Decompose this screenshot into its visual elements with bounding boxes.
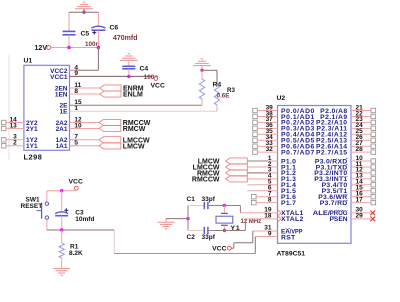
svg-text:1E: 1E (60, 109, 69, 116)
tag ENRM (100, 85, 144, 93)
U2 pin 8 (P1.7) (252, 196, 297, 207)
svg-text:VCC1: VCC1 (50, 74, 68, 81)
U2 pin 15 (P3.5) (322, 185, 376, 196)
node crystal bottom (223, 229, 226, 232)
U1 pin 2 (1Y1) (1, 140, 38, 151)
power flag (inverted ground) above C5/C6 (75, 2, 93, 9)
U2 pin 14 (P3.4) (322, 179, 376, 190)
svg-text:2Y1: 2Y1 (26, 126, 38, 133)
U2 pin 6 (P1.5) (247, 185, 296, 196)
svg-text:ALE/: ALE/ (313, 210, 330, 217)
svg-text:U1: U1 (24, 58, 33, 65)
faint left page edge (8, 55, 10, 160)
U2 pin 19 (XTAL1) (240, 207, 303, 218)
svg-text:VCC: VCC (69, 178, 83, 185)
U2 pin 1 (P1.0) (247, 155, 296, 166)
node xtal ground rail (186, 217, 189, 220)
U2 pin 29 (PSEN) (330, 213, 372, 224)
U1 pin 14 (2Y2) (1, 116, 38, 127)
resistor R1 (59, 230, 83, 268)
wire 1EN to tag (70, 93, 101, 95)
U1 pin 4 (VCC2) (50, 64, 78, 75)
tag LMCW (198, 158, 248, 166)
U1 pin 5 (1A1) (56, 140, 79, 151)
U1 pin 9 (VCC1) (50, 70, 78, 81)
clock chevron XTAL2 (278, 216, 281, 222)
svg-text:C6: C6 (110, 25, 119, 32)
U2 pin 4 (P1.3) (247, 173, 296, 184)
svg-text:32: 32 (266, 146, 274, 153)
svg-text:13: 13 (10, 122, 18, 129)
U2 pin 21 (P2.0/A8) (320, 104, 375, 115)
svg-text:P1.7: P1.7 (281, 200, 296, 207)
crystal Y1 (216, 206, 240, 233)
node: junction at top rail (82, 11, 85, 14)
terminal 12V (35, 45, 51, 52)
svg-text:LMCW: LMCW (123, 143, 145, 150)
U2 pin 30 (ALE/PROG) (313, 207, 371, 218)
capacitor C3 (55, 208, 94, 223)
U2 pin 9 (RST) (255, 230, 296, 241)
U2 pin 12 (P3.2) (314, 167, 375, 178)
no-connect X on pin 30 (370, 211, 375, 216)
wire C4 lower lead (128, 69, 130, 77)
wire reset to RST pin (114, 230, 255, 254)
svg-text:1A1: 1A1 (56, 143, 68, 150)
tag LMCW (99, 143, 145, 151)
power flag above R4 (193, 59, 211, 66)
label 0.6E (217, 92, 230, 99)
svg-text:PSEN: PSEN (330, 216, 348, 223)
svg-text:VCC: VCC (212, 246, 226, 253)
capacitor C1 (187, 196, 216, 209)
U2 pin 3 (P1.2) (247, 167, 296, 178)
wire C2 to XTAL2 (208, 219, 245, 231)
wire C4 upper lead (128, 60, 130, 66)
U2 pin 17 (P3.7) (320, 196, 376, 207)
svg-text:2: 2 (13, 140, 17, 147)
U1 pin 1 (1E) (60, 105, 79, 116)
capacitor C6 (91, 25, 137, 43)
U2 pin 34 (P0.5/AD5) (253, 134, 315, 145)
switch SW1 RESET (21, 196, 49, 219)
wire 1A2 to tag (70, 139, 100, 141)
wire 2A2 to tag (70, 122, 100, 124)
svg-text:2A1: 2A1 (56, 126, 68, 133)
svg-text:C4: C4 (140, 66, 149, 73)
U2 pin 38 (P0.1/AD1) (253, 110, 315, 121)
U2 pin 24 (P2.3/A11) (316, 122, 375, 132)
svg-text:C1: C1 (187, 196, 196, 203)
svg-text:RMCW: RMCW (123, 126, 146, 133)
tag RMCW (99, 125, 146, 133)
svg-text:1EN: 1EN (55, 91, 68, 98)
svg-text:RMCCW: RMCCW (192, 176, 220, 183)
tag ENLM (100, 91, 143, 99)
svg-text:P0.7/AD7: P0.7/AD7 (281, 149, 315, 156)
U2 pin 37 (P0.2/AD2) (253, 116, 315, 127)
terminal VCC (EA/VPP) (212, 246, 231, 253)
svg-text:12 MHz: 12 MHz (241, 219, 262, 225)
wire top rail (69, 11, 98, 13)
wire C6 upper lead (97, 12, 99, 26)
svg-text:10mfd: 10mfd (75, 216, 94, 223)
tag RMCCW (99, 119, 151, 127)
wire reset bottom rail (47, 229, 114, 231)
tag LMCCW (193, 164, 248, 172)
wire C6 lower lead (97, 30, 99, 47)
svg-text:ENLM: ENLM (123, 92, 143, 99)
U2 pin 36 (P0.3/AD3) (253, 122, 315, 132)
U1 pin 13 (2Y1) (1, 122, 38, 133)
label 100n (C4 value) (144, 74, 159, 81)
no-connect X on pin 29 (370, 217, 375, 222)
capacitor C2 (187, 227, 216, 241)
svg-text:33pf: 33pf (202, 196, 216, 203)
wire VCC1 to VCC terminal (70, 75, 153, 77)
resistor R4 (199, 70, 221, 105)
svg-text:0.6E: 0.6E (217, 92, 230, 99)
U2 pin 31 (EA/VPP) (253, 224, 303, 235)
wire 1A1 to tag (70, 145, 100, 147)
node C5/12V (67, 46, 70, 49)
U2 pin 28 (P2.7/A15) (316, 146, 376, 157)
resistor R3 (214, 85, 235, 111)
U2 pin 13 (P3.3) (314, 173, 375, 184)
svg-text:U2: U2 (277, 95, 286, 102)
svg-text:33pf: 33pf (202, 234, 216, 241)
U2 pin 10 (P3.0) (315, 155, 376, 166)
svg-text:XTAL2: XTAL2 (281, 216, 304, 223)
U2 pin 25 (P2.4/A12) (316, 128, 376, 139)
U2 pin 32 (P0.7/AD7) (253, 146, 315, 157)
svg-text:12V: 12V (35, 45, 48, 52)
wire VCC to reset rail (47, 189, 76, 192)
wire flag to R4 node (201, 66, 203, 71)
node C4/VCC1 (127, 75, 130, 78)
U2 pin 33 (P0.6/AD6) (253, 140, 315, 151)
wire C5 lower lead (68, 35, 70, 48)
wire 1E to sense resistor R3 (70, 110, 218, 112)
svg-text:470mfd: 470mfd (113, 35, 138, 42)
microcontroller U2 AT89C51 box (277, 95, 352, 258)
U2 pin 18 (XTAL2) (245, 213, 303, 224)
svg-text:L298: L298 (24, 152, 43, 161)
power flag above C4 (120, 54, 138, 61)
ground below R1 (53, 269, 70, 276)
capacitor C4 (122, 66, 148, 73)
svg-text:AT89C51: AT89C51 (277, 251, 306, 258)
wire 12V to VCC2 pin 4 (70, 48, 99, 71)
U1 pin 11 (2EN) (55, 82, 82, 93)
svg-text:1Y1: 1Y1 (26, 143, 38, 150)
U1 pin 10 (2A1) (56, 122, 82, 133)
U1 pin 7 (1A2) (56, 134, 79, 145)
svg-text:VCC: VCC (151, 83, 165, 90)
U2 pin 39 (P0.0/AD0) (253, 104, 315, 115)
svg-text:P2.7/A15: P2.7/A15 (316, 149, 348, 156)
tag LMCCW (99, 137, 150, 145)
capacitor C5 (63, 31, 100, 49)
node C3 top (60, 189, 63, 192)
wire to R3 top (202, 70, 217, 85)
U1 pin 15 (2E) (60, 99, 82, 110)
svg-text:RESET: RESET (21, 203, 43, 210)
svg-text:C5: C5 (81, 31, 90, 38)
terminal VCC (near C4) (151, 77, 165, 90)
U2 pin 26 (P2.5/A13) (316, 134, 376, 145)
U2 pin 2 (P1.1) (247, 161, 296, 172)
ground (crystal) (158, 219, 189, 229)
svg-text:28: 28 (356, 146, 364, 153)
tag RMCCW (192, 176, 247, 184)
tag RMCW (197, 170, 247, 178)
wire 2A1 to tag (70, 128, 100, 130)
svg-text:18: 18 (264, 213, 272, 220)
U2 pin 5 (P1.4) (247, 179, 296, 190)
svg-text:C2: C2 (187, 234, 196, 241)
U2 pin 23 (P2.2/A10) (316, 116, 376, 127)
wire switch lower lead (46, 219, 48, 230)
svg-text:9: 9 (268, 230, 272, 237)
wire 2EN to tag (70, 87, 101, 89)
clock chevron XTAL1 (278, 210, 281, 216)
U1 pin 3 (1Y2) (1, 134, 38, 145)
U1 pin 8 (1EN) (55, 88, 79, 99)
U2 pin 7 (P1.6) (252, 191, 297, 202)
wire 2E to sense resistor R4 (70, 104, 203, 106)
U1 pin 12 (2A2) (56, 116, 82, 127)
wire switch upper lead (46, 191, 48, 202)
svg-text:RST: RST (281, 234, 296, 241)
U2 pin 27 (P2.6/A14) (316, 140, 376, 151)
U2 pin 35 (P0.4/AD4) (253, 128, 315, 139)
terminal VCC (reset) (69, 178, 83, 190)
wire C1 to XTAL1 (208, 206, 240, 213)
U2 pin 22 (P2.1/A9) (320, 110, 375, 121)
U2 pin 16 (P3.6) (318, 191, 375, 202)
wire VCC to EA/VPP (231, 231, 253, 248)
node C6/12V (97, 46, 100, 49)
svg-text:8.2K: 8.2K (69, 250, 83, 257)
wire C5 upper lead (68, 12, 70, 31)
node R1 top (60, 228, 63, 231)
label 12 MHz (241, 219, 262, 225)
wire xtal left rail (187, 206, 189, 231)
wire C3 vertical (61, 191, 63, 211)
svg-text:29: 29 (356, 213, 364, 220)
node crystal top (223, 204, 226, 207)
svg-text:8: 8 (268, 196, 272, 203)
node R4/R3 top (200, 69, 203, 72)
wire from power flag to rail (83, 9, 85, 12)
op-amp U1 L298 box (24, 58, 70, 162)
svg-text:P3.7/RD: P3.7/RD (320, 200, 348, 207)
wire 12V rail (51, 47, 99, 49)
wire C3 lower lead (61, 216, 63, 230)
svg-text:17: 17 (356, 196, 364, 203)
svg-text:R4: R4 (213, 82, 222, 89)
U2 pin 11 (P3.1) (316, 161, 376, 172)
